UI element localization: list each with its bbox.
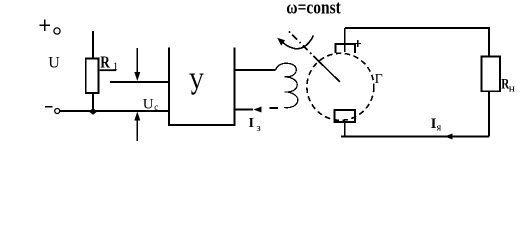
svg-text:I: I [249,116,254,131]
svg-text:U: U [48,55,60,72]
svg-text:ω=const: ω=const [286,0,341,19]
svg-text:н: н [509,84,516,95]
svg-text:U: U [143,97,154,113]
svg-text:з: з [256,122,260,134]
svg-text:R: R [100,52,110,71]
svg-text:У: У [189,66,204,102]
svg-text:я: я [437,123,442,134]
svg-text:c: c [154,102,158,112]
svg-text:Г: Г [375,72,383,87]
svg-text:1: 1 [113,60,119,72]
